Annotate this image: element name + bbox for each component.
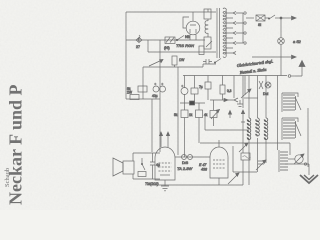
resistor speaker [138, 172, 146, 177]
switch contact [142, 158, 145, 170]
wire bottom bus [152, 184, 243, 186]
wire main bus mid [143, 64, 216, 67]
speaker [113, 158, 123, 176]
resistor 50k [191, 88, 198, 94]
wire [205, 129, 249, 131]
wire arrow line [252, 56, 291, 58]
component box [241, 153, 250, 160]
coupling caps DrS [175, 156, 210, 158]
wire [233, 171, 257, 173]
ground tube1 [161, 180, 169, 191]
wire [151, 99, 153, 152]
wire [232, 146, 234, 172]
wire [289, 143, 291, 155]
trimmer arrow [228, 173, 239, 184]
coil L3 [265, 76, 267, 119]
resistor [199, 46, 204, 55]
coil L1 [248, 76, 250, 119]
terminal strip [236, 13, 243, 43]
wire [200, 142, 290, 144]
wire [285, 163, 309, 165]
switch [206, 41, 212, 47]
junction [280, 17, 282, 19]
trimmer arrow [211, 110, 220, 120]
wire [142, 67, 144, 99]
band switch S1 [281, 93, 283, 112]
wire [147, 40, 149, 52]
component DM [265, 82, 271, 88]
wire [194, 76, 196, 106]
resistor 4k [210, 111, 217, 118]
resistor 1W [172, 56, 177, 65]
potentiometer wiper [149, 60, 163, 67]
wire [213, 100, 215, 126]
wire [218, 178, 220, 185]
wire [280, 44, 282, 75]
wire [198, 103, 200, 143]
wire [126, 98, 160, 100]
transformer TR taps [226, 13, 233, 53]
wire [277, 76, 279, 151]
wire bus right [237, 76, 287, 78]
fork [234, 98, 238, 102]
pilot lamp [278, 38, 285, 45]
up arrow [229, 113, 231, 118]
fuse 27 [136, 35, 142, 43]
wire heater bus [148, 51, 216, 53]
variable resistor [241, 89, 251, 98]
black capacitor [190, 101, 195, 105]
resistor 1k [196, 110, 203, 118]
wire [242, 76, 244, 186]
capacitor 7u [205, 82, 211, 89]
band switch S3 [278, 150, 280, 172]
wire [288, 158, 295, 160]
wire cap row [180, 102, 205, 104]
wire [177, 67, 179, 155]
switch [215, 59, 221, 63]
tube TA 2.3W [155, 147, 175, 180]
wire [132, 153, 134, 179]
electrolytic pair [153, 86, 159, 92]
resistor 5k [138, 86, 147, 92]
switch block Ni [165, 37, 175, 44]
wire left vertical [125, 12, 127, 99]
wire speaker bottom [133, 178, 160, 180]
rectifier tube RGN354 [186, 21, 200, 35]
wire diode row [210, 99, 234, 101]
capacitor 4uF [150, 153, 155, 179]
resistor 5k [181, 110, 188, 118]
coil L2 [257, 76, 259, 119]
wire [244, 97, 258, 99]
terminal forks [233, 12, 236, 55]
ground [237, 100, 243, 107]
tube anode arrows [161, 135, 168, 147]
wire [204, 116, 206, 130]
ground chassis [308, 164, 310, 175]
switch mains [265, 15, 275, 19]
capacitor [203, 59, 212, 64]
antenna arrow [295, 64, 302, 76]
transformer TR secondary [223, 8, 226, 57]
band switch S2 [281, 118, 283, 140]
wire [233, 76, 235, 99]
transformer TR primary [204, 9, 211, 19]
wire [275, 17, 291, 19]
diode arrow [224, 98, 228, 101]
electrolytic 50u [181, 88, 188, 95]
wire [159, 40, 161, 152]
wire mains bus [126, 39, 205, 41]
resistor [220, 85, 225, 94]
trimmer [256, 160, 266, 170]
tube ECH [210, 147, 228, 178]
transformer TR core [217, 8, 220, 58]
wire [280, 18, 282, 38]
fuse Si [256, 15, 265, 21]
up arrow [241, 113, 245, 122]
arrowhead [292, 16, 297, 20]
wire speaker top [133, 152, 160, 154]
variable capacitor [295, 155, 303, 163]
terminal [288, 75, 291, 78]
arrowhead [292, 55, 297, 59]
wire bus lower [183, 75, 287, 77]
wire [307, 108, 309, 167]
switch NB [177, 36, 184, 41]
wire top bus [126, 11, 216, 13]
wire [184, 76, 186, 104]
wire [184, 103, 186, 157]
trimmer [239, 143, 248, 152]
wire mains out [246, 17, 254, 19]
resistor [130, 95, 139, 100]
